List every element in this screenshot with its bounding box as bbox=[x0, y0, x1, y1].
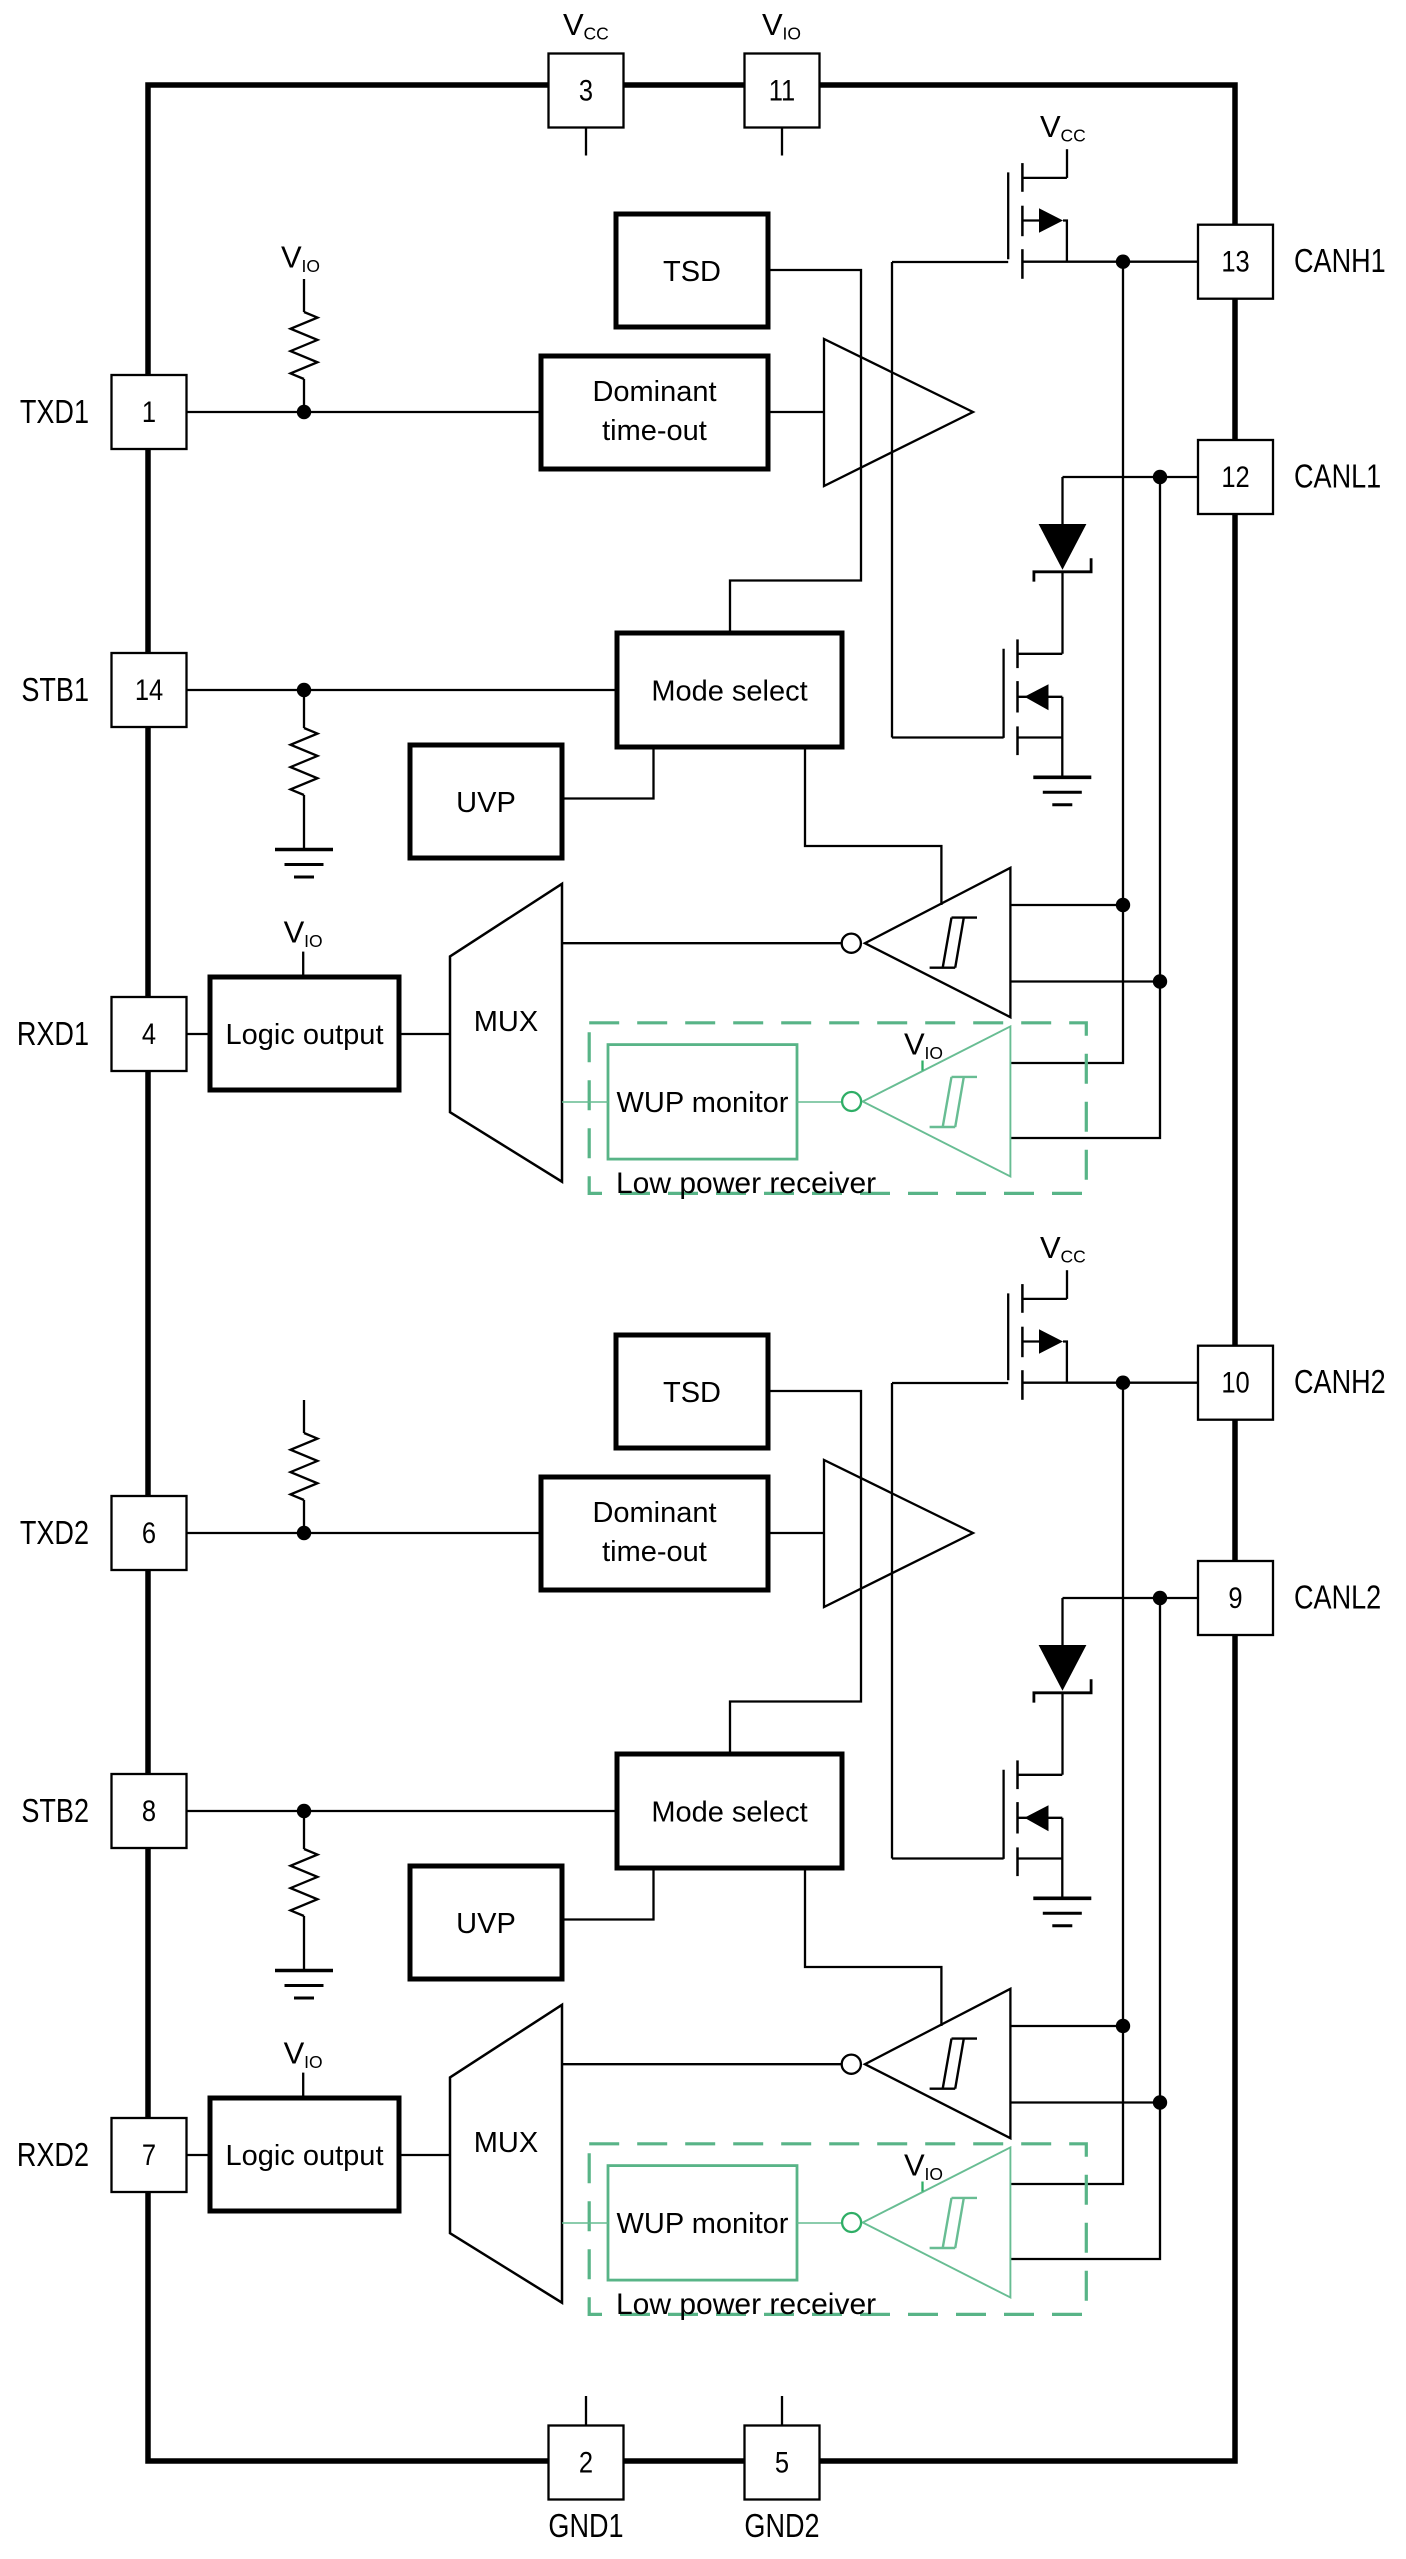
driver amplifier triangle channel 2 bbox=[824, 1460, 973, 1607]
svg-text:MUX: MUX bbox=[474, 2127, 538, 2159]
driver amplifier triangle channel 1 bbox=[824, 339, 973, 486]
transistor high-side MOSFET channel 2 bbox=[1008, 1284, 1067, 1400]
wire WUP monitor to low power comparator channel 2 bbox=[797, 2222, 842, 2224]
wire RXD1 pin to logic output bbox=[187, 1033, 211, 1035]
low power receiver dashed box channel 1 bbox=[589, 1023, 1086, 1194]
svg-text:Low power receiver: Low power receiver bbox=[616, 2288, 876, 2321]
svg-text:V: V bbox=[904, 2148, 925, 2183]
svg-text:Mode select: Mode select bbox=[651, 1796, 807, 1828]
wire receiver output to MUX channel 2 bbox=[562, 2063, 842, 2065]
pin 4 (RXD1) bbox=[112, 997, 187, 1071]
wire CANL2 vertical to receivers bbox=[1159, 1598, 1161, 2103]
junction CANH2 at MOSFET source bbox=[1116, 1376, 1130, 1390]
pin 3 (VCC) bbox=[549, 54, 624, 128]
net label VIO (logic output 1) bbox=[284, 914, 323, 951]
junction CANH1 receiver tap bbox=[1116, 898, 1130, 912]
pin 9 (CANL2) bbox=[1198, 1561, 1273, 1635]
resistor pull-down STB2 bbox=[291, 1849, 318, 1916]
svg-text:time-out: time-out bbox=[602, 415, 707, 447]
diode zener clamp channel 1 bbox=[1034, 477, 1091, 654]
low power receiver dashed box channel 2 bbox=[589, 2144, 1086, 2315]
Mode select box channel 1 bbox=[617, 633, 842, 747]
wire VIO stub low power receiver channel 2 bbox=[921, 2182, 923, 2192]
svg-text:CANH2: CANH2 bbox=[1294, 1365, 1386, 1401]
svg-text:time-out: time-out bbox=[602, 1536, 707, 1568]
junction CANH2 receiver tap bbox=[1116, 2019, 1130, 2033]
transistor low-side MOSFET channel 2 bbox=[1004, 1760, 1063, 1897]
WUP monitor box channel 2 bbox=[608, 2166, 797, 2281]
svg-text:CANH1: CANH1 bbox=[1294, 244, 1386, 280]
svg-text:Low power receiver: Low power receiver bbox=[616, 1167, 876, 1200]
net label VIO (logic output 2) bbox=[284, 2035, 323, 2072]
wire TXD1 input bbox=[187, 411, 542, 413]
wire CANH2 vertical to receivers bbox=[1122, 1383, 1124, 2026]
junction CANL1 bbox=[1153, 470, 1167, 484]
pin 6 (TXD2) bbox=[112, 1496, 187, 1570]
svg-text:14: 14 bbox=[135, 673, 163, 706]
svg-text:8: 8 bbox=[142, 1794, 156, 1827]
pin 13 (CANH1) bbox=[1198, 225, 1273, 299]
transistor high-side MOSFET channel 1 bbox=[1008, 163, 1067, 279]
svg-text:IO: IO bbox=[304, 931, 322, 951]
ground symbol STB1 pull-down bbox=[275, 850, 333, 878]
wire CANH2 from MOSFET source to pin bbox=[1022, 1382, 1197, 1384]
svg-text:IO: IO bbox=[925, 1043, 943, 1063]
Logic output box channel 2 bbox=[210, 2098, 399, 2211]
pin 8 (STB2) bbox=[112, 1774, 187, 1848]
wire STB1 input bbox=[187, 689, 618, 691]
low power receiver comparator channel 1 bbox=[863, 1026, 1011, 1176]
svg-text:11: 11 bbox=[769, 74, 795, 107]
svg-text:TSD: TSD bbox=[663, 256, 721, 288]
svg-text:12: 12 bbox=[1221, 460, 1249, 493]
Logic output box channel 1 bbox=[210, 977, 399, 1090]
pin 14 (STB1) bbox=[112, 653, 187, 727]
wire GND2 pin stub bbox=[781, 2396, 783, 2425]
net label VIO (low power receiver 1) bbox=[904, 1027, 943, 1064]
wire CANL2 receiver input bbox=[1010, 2101, 1160, 2103]
svg-text:9: 9 bbox=[1228, 1581, 1242, 1614]
svg-text:GND1: GND1 bbox=[548, 2509, 623, 2545]
junction STB2 pull-down node bbox=[297, 1804, 311, 1818]
inverter bubble low power receiver channel 2 bbox=[842, 2213, 861, 2232]
inverter bubble receiver channel 2 bbox=[842, 2055, 861, 2074]
wire VIO stub low power receiver channel 1 bbox=[921, 1061, 923, 1071]
ground symbol low-side MOSFET channel 1 bbox=[1033, 777, 1091, 805]
svg-text:CANL1: CANL1 bbox=[1294, 459, 1381, 495]
svg-text:V: V bbox=[284, 2035, 305, 2070]
resistor pull-up TXD2 to VIO bbox=[291, 1433, 318, 1500]
net label VCC channel 2 bbox=[1040, 1230, 1086, 1267]
svg-text:TXD2: TXD2 bbox=[20, 1516, 89, 1552]
wire CANL2 from pin to clamp diode bbox=[1063, 1597, 1198, 1599]
pin 7 (RXD2) bbox=[112, 2118, 187, 2192]
pin 12 (CANL1) bbox=[1198, 440, 1273, 514]
wire GND1 pin stub bbox=[585, 2396, 587, 2425]
net label VIO (low power receiver 2) bbox=[904, 2148, 943, 2185]
MUX block channel 2 bbox=[450, 2005, 562, 2303]
svg-text:7: 7 bbox=[142, 2138, 156, 2171]
svg-text:V: V bbox=[904, 1027, 925, 1062]
svg-text:10: 10 bbox=[1221, 1366, 1249, 1399]
svg-text:Dominant: Dominant bbox=[592, 1497, 716, 1529]
pin 2 (GND1) bbox=[549, 2426, 624, 2500]
svg-text:CC: CC bbox=[584, 23, 609, 43]
wire VCC stub channel 2 bbox=[1066, 1270, 1068, 1299]
wire WUP monitor to low power comparator channel 1 bbox=[797, 1101, 842, 1103]
svg-text:IO: IO bbox=[925, 2164, 943, 2184]
wire UVP to mode select channel 1 bbox=[562, 747, 654, 799]
pin 5 (GND2) bbox=[745, 2426, 820, 2500]
Dominant time-out box channel 1 bbox=[541, 356, 768, 469]
svg-text:V: V bbox=[762, 7, 783, 42]
wire VIO stub logic output channel 1 bbox=[302, 952, 304, 977]
junction STB1 pull-down node bbox=[297, 683, 311, 697]
net label VCC (pin 3) bbox=[563, 7, 609, 44]
wire CANL1 from pin to clamp diode bbox=[1063, 476, 1198, 478]
wire driver gate node channel 2 bbox=[892, 1383, 1008, 1859]
wire CANH1 to low power receiver bbox=[1010, 905, 1123, 1063]
junction CANL2 receiver tap bbox=[1153, 2095, 1167, 2109]
Dominant time-out box channel 2 bbox=[541, 1477, 768, 1590]
junction CANL1 receiver tap bbox=[1153, 974, 1167, 988]
svg-text:3: 3 bbox=[579, 74, 593, 107]
ground symbol low-side MOSFET channel 2 bbox=[1033, 1898, 1091, 1926]
wire MUX to WUP monitor channel 2 bbox=[562, 2222, 608, 2224]
TSD box (thermal shutdown) channel 2 bbox=[616, 1335, 768, 1448]
svg-text:4: 4 bbox=[142, 1017, 156, 1050]
svg-text:RXD1: RXD1 bbox=[17, 1017, 89, 1053]
wire CANH1 receiver input bbox=[1010, 904, 1123, 906]
wire TSD to mode select channel 1 bbox=[730, 270, 861, 633]
TSD box (thermal shutdown) channel 1 bbox=[616, 214, 768, 327]
wire TSD to mode select channel 2 bbox=[730, 1391, 861, 1754]
svg-text:CC: CC bbox=[1061, 125, 1086, 145]
inverter bubble receiver channel 1 bbox=[842, 934, 861, 953]
svg-text:V: V bbox=[1040, 1230, 1061, 1265]
wire VCC pin stub bbox=[585, 128, 587, 156]
svg-text:MUX: MUX bbox=[474, 1006, 538, 1038]
svg-text:GND2: GND2 bbox=[744, 2509, 819, 2545]
svg-text:IO: IO bbox=[304, 2052, 322, 2072]
wire logic output to MUX channel 2 bbox=[399, 2154, 450, 2156]
UVP box channel 2 bbox=[410, 1866, 562, 1979]
receiver comparator channel 1 bbox=[865, 868, 1011, 1017]
net label VIO (TXD1 pull-up) bbox=[281, 240, 320, 277]
svg-text:RXD2: RXD2 bbox=[17, 2138, 89, 2174]
ground symbol STB2 pull-down bbox=[275, 1971, 333, 1999]
svg-text:V: V bbox=[281, 240, 302, 275]
svg-text:Mode select: Mode select bbox=[651, 675, 807, 707]
junction TXD1 pull-up node bbox=[297, 405, 311, 419]
wire pull-up resistor stubs TXD1 bbox=[303, 279, 305, 312]
wire dominant time-out to driver channel 1 bbox=[768, 411, 824, 413]
wire STB2 input bbox=[187, 1810, 618, 1812]
inverter bubble low power receiver channel 1 bbox=[842, 1092, 861, 1111]
junction TXD2 pull-up node bbox=[297, 1526, 311, 1540]
wire receiver output to MUX channel 1 bbox=[562, 942, 842, 944]
svg-text:STB1: STB1 bbox=[21, 673, 89, 709]
wire dominant time-out to driver channel 2 bbox=[768, 1532, 824, 1534]
wire MUX to WUP monitor channel 1 bbox=[562, 1101, 608, 1103]
wire RXD2 pin to logic output bbox=[187, 2154, 211, 2156]
junction CANH1 at MOSFET source bbox=[1116, 255, 1130, 269]
svg-text:1: 1 bbox=[142, 395, 156, 428]
chip boundary bbox=[148, 85, 1235, 2461]
resistor pull-down STB1 bbox=[291, 728, 318, 795]
wire mode select to receiver channel 2 bbox=[805, 1868, 941, 2026]
svg-text:CANL2: CANL2 bbox=[1294, 1580, 1381, 1616]
svg-text:TSD: TSD bbox=[663, 1377, 721, 1409]
svg-text:13: 13 bbox=[1221, 245, 1249, 278]
net label VIO (pin 11) bbox=[762, 7, 801, 44]
wire logic output to MUX channel 1 bbox=[399, 1033, 450, 1035]
wire VIO stub logic output channel 2 bbox=[302, 2073, 304, 2098]
svg-text:UVP: UVP bbox=[456, 1908, 516, 1940]
junction CANL2 bbox=[1153, 1591, 1167, 1605]
svg-text:STB2: STB2 bbox=[21, 1794, 89, 1830]
wire CANH2 receiver input bbox=[1010, 2025, 1123, 2027]
wire pull-down resistor stubs STB1 bbox=[303, 690, 305, 728]
svg-text:5: 5 bbox=[775, 2446, 789, 2479]
svg-text:V: V bbox=[284, 914, 305, 949]
net label VCC channel 1 bbox=[1040, 109, 1086, 146]
svg-text:CC: CC bbox=[1061, 1246, 1086, 1266]
svg-text:V: V bbox=[1040, 109, 1061, 144]
wire mode select to receiver channel 1 bbox=[805, 747, 941, 905]
svg-text:6: 6 bbox=[142, 1516, 156, 1549]
wire CANL1 receiver input bbox=[1010, 980, 1160, 982]
svg-text:WUP monitor: WUP monitor bbox=[617, 2208, 789, 2240]
svg-text:TXD1: TXD1 bbox=[20, 395, 89, 431]
svg-text:Dominant: Dominant bbox=[592, 376, 716, 408]
svg-text:IO: IO bbox=[302, 256, 320, 276]
svg-text:IO: IO bbox=[783, 23, 801, 43]
MUX block channel 1 bbox=[450, 884, 562, 1182]
wire VCC stub channel 1 bbox=[1066, 149, 1068, 178]
wire CANH1 vertical to receivers bbox=[1122, 262, 1124, 905]
wire CANH1 from MOSFET source to pin bbox=[1022, 261, 1197, 263]
wire CANL1 to low power receiver bbox=[1010, 982, 1160, 1139]
wire CANH2 to low power receiver bbox=[1010, 2026, 1123, 2184]
wire CANL2 to low power receiver bbox=[1010, 2103, 1160, 2260]
wire TXD2 input bbox=[187, 1532, 542, 1534]
resistor pull-up TXD1 to VIO bbox=[291, 312, 318, 379]
WUP monitor box channel 1 bbox=[608, 1045, 797, 1160]
wire driver gate node channel 1 bbox=[892, 262, 1008, 738]
svg-text:2: 2 bbox=[579, 2446, 593, 2479]
svg-text:V: V bbox=[563, 7, 584, 42]
wire UVP to mode select channel 2 bbox=[562, 1868, 654, 1920]
wire VIO pin stub bbox=[781, 128, 783, 156]
svg-text:Logic output: Logic output bbox=[225, 2140, 383, 2172]
svg-text:Logic output: Logic output bbox=[225, 1019, 383, 1051]
wire pull-down resistor stubs STB2 bbox=[303, 1811, 305, 1849]
wire CANL1 vertical to receivers bbox=[1159, 477, 1161, 982]
pin 11 (VIO) bbox=[745, 54, 820, 128]
wire pull-up resistor stubs TXD2 bbox=[303, 1400, 305, 1433]
UVP box channel 1 bbox=[410, 745, 562, 858]
pin 1 (TXD1) bbox=[112, 375, 187, 449]
pin 10 (CANH2) bbox=[1198, 1346, 1273, 1420]
transistor low-side MOSFET channel 1 bbox=[1004, 639, 1063, 776]
low power receiver comparator channel 2 bbox=[863, 2147, 1011, 2297]
receiver comparator channel 2 bbox=[865, 1989, 1011, 2138]
Mode select box channel 2 bbox=[617, 1754, 842, 1868]
svg-text:WUP monitor: WUP monitor bbox=[617, 1087, 789, 1119]
svg-text:UVP: UVP bbox=[456, 787, 516, 819]
diode zener clamp channel 2 bbox=[1034, 1598, 1091, 1775]
